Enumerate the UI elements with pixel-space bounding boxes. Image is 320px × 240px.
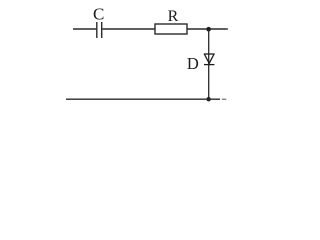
node junction top xyxy=(206,27,211,32)
resistor R xyxy=(155,24,187,34)
wire xyxy=(222,98,227,100)
diode D xyxy=(204,54,215,65)
svg-text:R: R xyxy=(168,8,179,25)
wire xyxy=(102,28,155,30)
capacitor C xyxy=(97,22,102,38)
wire xyxy=(73,28,96,30)
wire xyxy=(208,29,210,99)
wire xyxy=(66,98,220,100)
svg-text:D: D xyxy=(187,54,199,73)
wire xyxy=(187,28,228,30)
node junction bottom xyxy=(206,97,210,101)
svg-text:C: C xyxy=(93,4,104,23)
